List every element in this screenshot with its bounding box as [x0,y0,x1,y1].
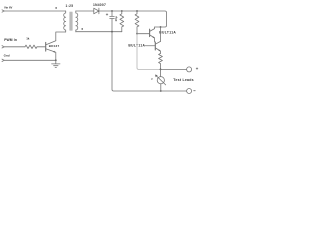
terminal minus test lead circle [187,89,192,94]
wire PWM to R4 [4,46,25,48]
svg-text:BD137: BD137 [49,44,60,48]
meter M1 stem bottom [160,84,162,91]
svg-text:Gnd: Gnd [4,53,10,57]
label plus sign [196,68,198,70]
svg-text:Test Leads: Test Leads [173,78,194,82]
meter M1 stem top [160,69,162,76]
svg-text:Vin 6V: Vin 6V [4,6,13,10]
svg-text:PWM In: PWM In [4,38,17,42]
junction top rail / R2 [136,10,138,12]
transistor Q3 BULT11A (lower) [145,41,160,53]
svg-text:1:25: 1:25 [66,4,74,8]
wire R2 node to Q2 base [137,33,150,35]
wire secondary top to diode [76,10,94,12]
svg-text:10µ: 10µ [114,16,118,21]
meter M1 needle arrowhead [155,75,158,78]
wire diode to top rail with corner down to collector row [99,11,167,27]
transformer T1 secondary winding [76,11,78,32]
label minus sign [194,90,196,92]
junction output node [160,69,162,71]
wire output node to plus test lead [161,68,187,70]
svg-text:1k: 1k [26,36,30,40]
terminal plus test lead circle [187,67,192,72]
wire feedback from R2 node down to output junction (faint) [137,34,161,70]
wire R4 to Q1 base [37,46,46,48]
diode D1 [94,8,99,14]
resistor R1 [120,11,124,32]
capacitor C1 plus sign [106,14,108,16]
connector Gnd chevron [2,59,4,61]
meter M1 body [157,77,164,84]
junction bottom rail / C1 [111,31,113,33]
svg-text:µ: µ [151,78,153,81]
wire secondary bottom rail [76,31,122,33]
connector Vin chevron [2,10,4,12]
transistor Q1 BD137 [46,41,56,61]
ground symbol [52,60,60,67]
wire Gnd rail [4,59,56,61]
svg-text:1N4007: 1N4007 [93,3,106,7]
junction meter / bottom rail [160,90,162,92]
transistor Q2 BULT11A (upper) [150,27,155,42]
connector PWM chevron [2,46,4,48]
svg-text:BULT11A: BULT11A [159,31,176,35]
transformer T1 core [70,12,72,30]
junction collector row / Q3 collector [160,26,162,28]
junction top rail / C1 [111,10,113,12]
transformer T1 primary polarity dot [55,7,57,9]
transformer T1 secondary polarity dot [82,28,84,30]
junction Q1 emitter / gnd [55,59,57,61]
wire Q3 collector vertical [160,27,162,41]
capacitor C1 [110,11,115,32]
junction R2 bottom node [136,33,138,35]
meter M1 needle [156,76,165,85]
resistor R4 [25,45,37,48]
resistor R2 [135,11,139,34]
wire Vin to transformer primary top [4,10,65,12]
wire primary bottom to Q1 collector [56,32,66,41]
transformer T1 primary winding [64,11,66,32]
resistor R3 [159,53,163,69]
junction top rail / R1 [121,10,123,12]
wire bottom return rail [112,32,187,91]
